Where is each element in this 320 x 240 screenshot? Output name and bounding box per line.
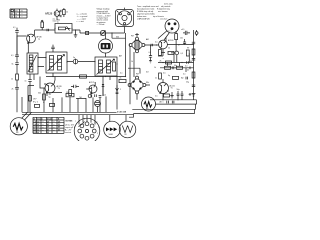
left mid rails — [129, 45, 134, 104]
svg-text:4,0: 4,0 — [34, 128, 36, 131]
svg-text:1,5: 1,5 — [34, 121, 36, 123]
lamp symbol E1 — [119, 115, 136, 138]
oscillator coil box L1 — [54, 20, 72, 33]
svg-text:4µ: 4µ — [168, 75, 170, 77]
svg-text:2n: 2n — [155, 77, 157, 79]
svg-text:NOTES: NOTES — [66, 121, 74, 123]
svg-text:2k: 2k — [15, 16, 17, 18]
svg-text:1n: 1n — [25, 80, 27, 82]
output enclosure box — [22, 86, 55, 113]
notes block — [65, 121, 85, 134]
fuse label box — [117, 111, 127, 114]
svg-text:see text: see text — [65, 131, 72, 134]
svg-text:1k: 1k — [66, 12, 68, 14]
output caps — [160, 100, 174, 103]
IF can stub — [124, 27, 126, 34]
svg-text:A0: A0 — [167, 90, 169, 93]
transistor T5 AC151 — [158, 73, 175, 94]
transistor T4 driver — [86, 81, 97, 97]
electrolytic pair C30 — [177, 89, 184, 100]
tuning indicator (dial badge) — [99, 32, 113, 57]
svg-text:1: 1 — [97, 121, 98, 123]
ratio detector transformer L5 — [129, 33, 145, 53]
svg-text:1k: 1k — [11, 78, 13, 80]
svg-text:4k: 4k — [187, 70, 189, 72]
svg-text:—: — — [21, 13, 23, 15]
resistor R12 — [25, 74, 32, 95]
svg-text:see chart: see chart — [160, 17, 168, 20]
svg-text:600: 600 — [116, 37, 119, 39]
svg-text:—: — — [42, 129, 44, 131]
scattered value labels mid-right — [119, 38, 192, 97]
right supply rail — [187, 30, 195, 100]
svg-text:1W •: 1W • — [33, 99, 37, 101]
svg-text:30k: 30k — [38, 92, 41, 94]
IF can U1 (top view) — [116, 8, 134, 27]
svg-text:osc. trimmer: osc. trimmer — [158, 10, 168, 13]
svg-text:500Ω: 500Ω — [109, 134, 114, 136]
mid-right network row 3 — [160, 66, 194, 70]
lamp symbol on bus — [100, 30, 105, 35]
IF transformer box L2 — [27, 53, 39, 80]
svg-text:—: — — [42, 124, 44, 126]
junction dots — [16, 35, 194, 100]
coupling cap C15 — [71, 85, 79, 88]
svg-text:2,5: 2,5 — [34, 127, 36, 129]
svg-text:0,5: 0,5 — [181, 53, 183, 55]
antenna coupling capacitor C1 — [13, 27, 19, 36]
wire osc line — [35, 29, 55, 32]
mid-right network row 2 — [158, 60, 194, 67]
svg-text:1k: 1k — [120, 78, 122, 80]
svg-text:of AF125 AF126: of AF125 AF126 — [137, 17, 150, 20]
svg-text:5k: 5k — [12, 64, 14, 66]
legend text block — [77, 14, 88, 24]
svg-text:10n: 10n — [180, 37, 183, 39]
svg-text:1,8: 1,8 — [34, 124, 36, 126]
resistor R14 — [38, 88, 45, 112]
svg-text:47: 47 — [178, 45, 180, 47]
svg-text:25µ: 25µ — [186, 82, 189, 84]
IF transformer box L3 — [45, 45, 67, 73]
shield box corner — [128, 68, 140, 73]
svg-text:Diode: Diode — [47, 119, 52, 121]
vertical drops to bottom bus — [48, 93, 106, 113]
detector output wire — [145, 44, 159, 47]
svg-text:techn. data: techn. data — [164, 3, 173, 6]
transistor T2 AF136 — [27, 30, 42, 53]
svg-text:1k: 1k — [131, 61, 133, 63]
text block upper right — [137, 3, 173, 21]
rectifier column — [102, 77, 126, 110]
transistor T3 AF126 — [40, 77, 62, 97]
svg-text:T3: T3 — [58, 88, 60, 90]
svg-text:50µ: 50µ — [177, 89, 180, 91]
mid-right network row 1 — [149, 45, 190, 63]
svg-text:AC125: AC125 — [89, 81, 94, 84]
svg-text:±0,5: ±0,5 — [181, 29, 184, 31]
bottom bus lines — [22, 100, 197, 117]
resistor R26 — [173, 76, 188, 79]
svg-text:—: — — [53, 121, 55, 123]
svg-text:0,1: 0,1 — [183, 73, 185, 75]
resistor R16 — [69, 90, 72, 96]
svg-text:0,1: 0,1 — [185, 66, 187, 68]
svg-text:0,1: 0,1 — [11, 55, 13, 57]
svg-text:Circuit: Circuit — [37, 118, 43, 121]
mid bus wire — [46, 73, 126, 78]
motor symbol M1 — [104, 115, 121, 138]
svg-text:•— = test: •— = test — [77, 20, 85, 23]
svg-text:b c e: b c e — [168, 31, 172, 33]
left rail components — [11, 36, 19, 112]
svg-text:—: — — [42, 127, 44, 129]
svg-text:—: — — [53, 127, 55, 129]
svg-text:5µ: 5µ — [49, 96, 51, 98]
wire base T2 — [17, 36, 27, 55]
coupling wires L2 to L3 — [38, 58, 46, 67]
svg-text:2k: 2k — [160, 60, 162, 62]
svg-text:8Ω+: 8Ω+ — [146, 82, 149, 84]
voltage readings note block — [97, 8, 111, 26]
transistor T1 AF125 (mixer) — [45, 8, 68, 23]
svg-text:T2: T2 — [38, 39, 40, 41]
svg-text:2×AC128: 2×AC128 — [117, 111, 127, 114]
svg-text:0,1: 0,1 — [13, 27, 15, 29]
svg-text:2k: 2k — [168, 48, 170, 50]
diode bridge B2 — [128, 76, 150, 100]
svg-text:0,1: 0,1 — [155, 42, 157, 44]
bottom row caps right — [164, 93, 192, 97]
speaker LS2 — [142, 97, 156, 111]
svg-text:—: — — [21, 16, 23, 18]
transistor T4 — [159, 37, 194, 49]
svg-text:0,5: 0,5 — [163, 73, 165, 75]
svg-text:—: — — [42, 121, 44, 123]
capacitor C21 — [180, 37, 186, 44]
far right terminal — [181, 29, 198, 36]
bias table bottom — [33, 117, 64, 134]
svg-text:6,3: 6,3 — [34, 132, 36, 134]
svg-text:9k: 9k — [15, 13, 17, 15]
svg-text:AC180: AC180 — [168, 39, 173, 42]
svg-text:1k: 1k — [160, 92, 162, 94]
extra stubs right — [158, 45, 189, 100]
svg-text:—: — — [53, 124, 55, 126]
svg-text:0,1: 0,1 — [120, 73, 122, 75]
svg-text:1k: 1k — [154, 67, 156, 69]
svg-text:—: — — [53, 129, 55, 131]
electrolytic C18 — [95, 101, 101, 113]
svg-text:2k: 2k — [12, 88, 14, 90]
resistor R21 — [175, 31, 178, 45]
svg-text:T5: T5 — [171, 88, 173, 90]
svg-text:— 9V batt.: — 9V batt. — [97, 23, 106, 26]
resistor R3 — [41, 20, 44, 30]
svg-text:6,8: 6,8 — [146, 72, 148, 74]
ground sym right — [167, 90, 174, 98]
wire and ground after L1 — [72, 29, 80, 37]
crystal X1 on bus — [86, 31, 89, 34]
IF transformer box L4 — [94, 57, 117, 76]
trimmer capacitor — [67, 57, 95, 64]
svg-text:5p: 5p — [73, 57, 75, 59]
top supply bus — [80, 30, 126, 77]
svg-text:AF125: AF125 — [45, 13, 53, 16]
driver row components — [49, 92, 106, 99]
svg-text:0,5: 0,5 — [155, 96, 157, 98]
svg-text:4,5: 4,5 — [104, 94, 106, 96]
parts table top-left — [10, 9, 27, 18]
tube socket bottom view — [74, 115, 100, 144]
svg-text:AO 1: AO 1 — [160, 100, 164, 103]
transistor pinout circle (bottom view) — [158, 19, 179, 40]
svg-text:5k: 5k — [190, 61, 192, 63]
svg-text:2: 2 — [120, 89, 121, 91]
svg-text:R•↙ 4: R•↙ 4 — [33, 101, 38, 104]
speaker LS1 — [10, 112, 31, 135]
